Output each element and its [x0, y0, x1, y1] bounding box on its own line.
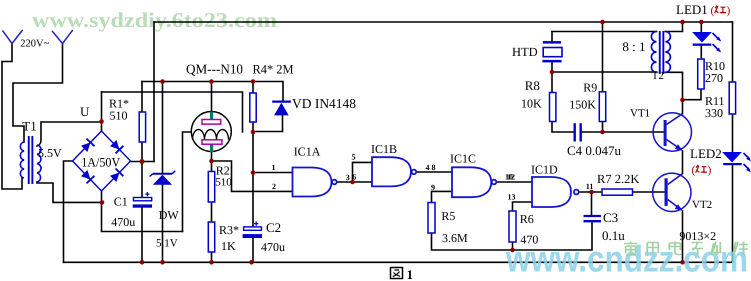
svg-text:R5: R5 — [441, 209, 455, 223]
wire IC1D out to R7 — [579, 191, 602, 193]
transformer T1 — [20, 142, 41, 182]
svg-text:C1: C1 — [114, 195, 128, 209]
svg-text:510: 510 — [110, 108, 128, 122]
resistor R4 2M — [250, 93, 256, 122]
svg-text:1: 1 — [272, 163, 276, 172]
wire ground bus — [64, 261, 733, 263]
svg-text:): ) — [727, 5, 731, 17]
wire 5.1V rail — [142, 82, 283, 101]
svg-text:R9: R9 — [583, 80, 597, 94]
wire IC1C pin9 to R5 — [432, 191, 453, 202]
svg-text:10K: 10K — [521, 96, 542, 110]
wire IC1B out to IC1C pin8 — [416, 171, 452, 173]
LED1 — [692, 32, 721, 53]
svg-text:R6: R6 — [520, 212, 534, 226]
wire sensor bottom to R2 — [211, 152, 213, 172]
transistor VT2 — [653, 173, 691, 211]
wire U rail to sensor-right column — [102, 92, 243, 132]
svg-text:IC1C: IC1C — [450, 152, 476, 166]
resistor R11 330 — [729, 82, 735, 114]
wire R11 to LED2 — [732, 114, 734, 152]
pin numbers — [272, 152, 594, 201]
wire sensor heater left column — [183, 132, 194, 232]
NAND gate IC1C — [452, 167, 496, 197]
wire top +V bus — [154, 21, 733, 23]
resistor R3 1K — [208, 222, 214, 252]
diode VD IN4148 — [272, 102, 291, 116]
wire sensor bottom to IC1A pin2 — [212, 161, 293, 191]
wire C4 to base node — [582, 131, 603, 133]
wire R3 to ground — [211, 252, 213, 262]
wire LED1 anode lead — [700, 22, 702, 32]
resistor R10 270 — [698, 59, 704, 89]
bridge rectifier 1A/50V — [73, 131, 131, 191]
resistor R9 150K — [599, 92, 605, 122]
wire DW zener column — [162, 82, 164, 263]
220V plug prongs — [2, 30, 72, 44]
NAND gate IC1B — [372, 157, 416, 186]
wire +V to R11 — [732, 22, 734, 82]
wire HTD top lead — [551, 32, 553, 73]
svg-text:510: 510 — [215, 176, 232, 188]
NAND gate IC1D — [532, 177, 579, 207]
wire T2 secondary bottom to VT1 collector — [665, 72, 682, 100]
wire R6 bottom lead — [512, 242, 514, 250]
transformer T2 8:1 — [651, 32, 670, 73]
svg-text:330: 330 — [705, 106, 723, 120]
svg-text:5.5V: 5.5V — [38, 146, 62, 160]
svg-text:R8: R8 — [525, 78, 540, 93]
zener DW — [150, 171, 176, 185]
wire R1 C1 column — [141, 82, 143, 263]
wire C3 top lead — [591, 192, 593, 215]
wire +V to R9 — [602, 22, 604, 92]
wire VT1 emitter to VT2 collector — [682, 151, 684, 174]
wire R4 leads — [252, 82, 254, 133]
svg-text:5.1V: 5.1V — [156, 238, 178, 250]
wire R10 to VT1 collector node — [683, 89, 702, 100]
wire 220V left lead — [2, 44, 22, 190]
wire U node to bridge top corner — [101, 92, 103, 131]
svg-text:3: 3 — [346, 173, 350, 182]
wire T1 secondary top to U node — [37, 122, 102, 146]
wire bridge left to ground bus — [64, 161, 73, 262]
wire T1 secondary bottom to bridge bottom — [37, 182, 102, 202]
svg-text:LED1: LED1 — [676, 2, 708, 17]
svg-text:IC1D: IC1D — [531, 163, 558, 177]
wire R8 top lead — [551, 72, 553, 93]
svg-text:LED2: LED2 — [690, 146, 722, 161]
svg-text:C3: C3 — [603, 210, 618, 225]
transistor VT1 — [653, 113, 691, 151]
wire sensor top pin lead — [211, 82, 213, 112]
piezo HTD — [542, 41, 562, 62]
wire R2 to R3 — [211, 202, 213, 222]
wire LED1 to R10 — [700, 46, 702, 59]
wire +V bus left drop to DC+ node — [153, 22, 155, 162]
svg-text:270: 270 — [705, 71, 723, 85]
svg-text:6: 6 — [352, 173, 356, 182]
wire R5 bottom rail — [432, 222, 593, 250]
watermark jiayong dianzi zhizuo (green CJK) — [624, 242, 748, 256]
wire IC1A output node — [337, 181, 353, 183]
wire HTD top to T2 primary — [552, 31, 657, 33]
svg-text:IC1B: IC1B — [371, 142, 397, 156]
svg-text:U: U — [80, 104, 90, 119]
wire R7 to VT2 base — [633, 191, 665, 193]
wire IC1B pin6 — [353, 181, 373, 183]
svg-text:QM---N10: QM---N10 — [186, 61, 243, 76]
caption tu 1 (figure 1) — [391, 267, 414, 281]
svg-text:11: 11 — [586, 182, 594, 191]
gas sensor QM-N10 — [191, 112, 231, 153]
svg-text:1K: 1K — [221, 239, 236, 253]
wire T2 secondary top to +V — [665, 22, 682, 32]
svg-text:13: 13 — [508, 192, 516, 201]
label (red) for LED1 — [711, 5, 731, 17]
svg-text:220V~: 220V~ — [20, 39, 49, 50]
wire base node to VT1 base — [603, 131, 664, 133]
svg-text:HTD: HTD — [512, 45, 538, 59]
svg-text:4 8: 4 8 — [426, 163, 436, 172]
svg-text:T1: T1 — [22, 119, 36, 134]
wire bridge bottom corner stub — [102, 191, 183, 232]
wire bridge right to DC+ column — [131, 161, 155, 163]
resistor R2 510 — [208, 172, 214, 203]
svg-text:150K: 150K — [569, 98, 596, 112]
wire IC1B pin5 — [353, 162, 373, 182]
resistor R5 3.6M — [428, 203, 435, 234]
svg-text:470u: 470u — [111, 215, 135, 229]
svg-text:): ) — [708, 164, 712, 176]
svg-text:9: 9 — [431, 183, 435, 192]
svg-text:5: 5 — [352, 152, 356, 161]
resistor R1 510 — [139, 112, 145, 142]
wire C2 to ground — [252, 238, 254, 262]
svg-text:3.6M: 3.6M — [442, 231, 468, 245]
svg-text:470u: 470u — [261, 240, 285, 254]
capacitor C4 0.047u — [575, 123, 581, 141]
wire node A to IC1A pin1 and C2 — [253, 132, 293, 227]
wire R9 bottom lead — [602, 122, 604, 133]
svg-text:T2: T2 — [652, 70, 664, 82]
svg-text:VT1: VT1 — [630, 108, 650, 120]
wire HTD bottom to T2 primary bottom — [552, 71, 657, 73]
wire R8 bottom to C4 — [552, 122, 574, 133]
svg-text:1A/50V: 1A/50V — [81, 154, 121, 169]
svg-text:(: ( — [692, 164, 696, 176]
NAND gate IC1A — [293, 168, 337, 197]
wire VD anode to node A — [253, 116, 283, 132]
wire VT1 collector lead — [682, 100, 684, 114]
svg-text:12: 12 — [507, 173, 515, 182]
capacitor C1 470u — [133, 192, 152, 208]
wire 220V right lead — [13, 44, 63, 143]
wire LED2 to ground — [732, 165, 734, 262]
svg-text:C2: C2 — [266, 220, 281, 235]
capacitor C3 0.1u — [584, 216, 602, 221]
resistor R6 470 — [509, 211, 516, 242]
svg-text:www.cndzz.com: www.cndzz.com — [505, 239, 748, 280]
svg-text:2: 2 — [272, 182, 276, 191]
svg-text:R7 2.2K: R7 2.2K — [597, 172, 639, 186]
resistor R8 10K — [550, 93, 556, 122]
svg-text:R3*: R3* — [219, 223, 239, 237]
LED2 — [722, 152, 751, 172]
svg-text:1: 1 — [407, 267, 414, 281]
label (red) for LED2 — [692, 164, 712, 176]
capacitor C2 470u — [243, 222, 262, 239]
svg-text:IC1A: IC1A — [294, 145, 321, 159]
svg-text:R4* 2M: R4* 2M — [253, 61, 294, 76]
svg-text:(: ( — [711, 5, 715, 17]
wire VT2 emitter to ground — [682, 211, 684, 262]
wire IC1D pin13 to R6 — [513, 202, 533, 211]
svg-text:VT2: VT2 — [692, 199, 712, 211]
svg-text:C4 0.047u: C4 0.047u — [567, 143, 621, 158]
wire IC1C out to IC1D pin12 — [497, 181, 533, 183]
svg-text:8 : 1: 8 : 1 — [622, 39, 645, 54]
svg-text:VD IN4148: VD IN4148 — [292, 96, 356, 111]
svg-text:DW: DW — [159, 208, 180, 222]
resistor R7 2.2K — [602, 189, 633, 195]
